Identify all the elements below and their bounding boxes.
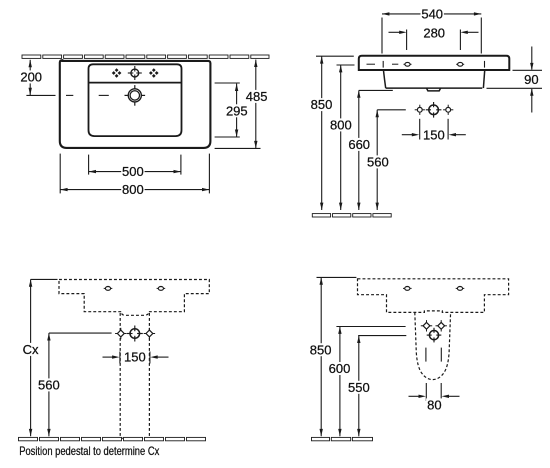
- svg-text:280: 280: [423, 25, 445, 40]
- svg-text:850: 850: [310, 342, 332, 357]
- svg-text:800: 800: [122, 182, 144, 197]
- svg-text:800: 800: [330, 118, 352, 133]
- svg-text:295: 295: [226, 103, 248, 118]
- svg-text:550: 550: [348, 380, 370, 395]
- svg-text:560: 560: [38, 378, 60, 393]
- svg-text:850: 850: [311, 97, 333, 112]
- svg-text:90: 90: [524, 72, 538, 87]
- svg-text:Cx: Cx: [23, 342, 39, 357]
- svg-text:485: 485: [246, 89, 268, 104]
- svg-text:540: 540: [421, 7, 443, 22]
- svg-text:150: 150: [124, 350, 146, 365]
- svg-text:660: 660: [348, 137, 370, 152]
- svg-text:560: 560: [367, 155, 389, 170]
- svg-text:500: 500: [122, 164, 144, 179]
- svg-text:80: 80: [427, 398, 441, 413]
- svg-text:600: 600: [329, 361, 351, 376]
- svg-text:Position pedestal to determine: Position pedestal to determine Cx: [19, 446, 160, 458]
- svg-text:150: 150: [423, 127, 445, 142]
- svg-text:200: 200: [20, 70, 42, 85]
